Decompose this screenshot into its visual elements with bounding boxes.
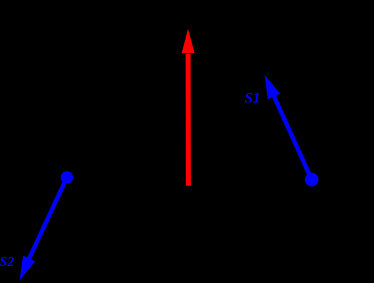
node dot S1 origin [305,173,319,187]
vector S1 head [265,75,281,99]
svg-text:S1: S1 [245,91,261,107]
vector S1 shaft [273,94,312,180]
vector arrow (red resultant) head [182,29,195,53]
vector S2 head [20,256,36,281]
vector S2 shaft [28,178,67,262]
svg-text:S2: S2 [0,255,14,270]
node dot S2 origin [61,171,73,183]
vector arrow (red resultant) shaft [186,54,191,186]
